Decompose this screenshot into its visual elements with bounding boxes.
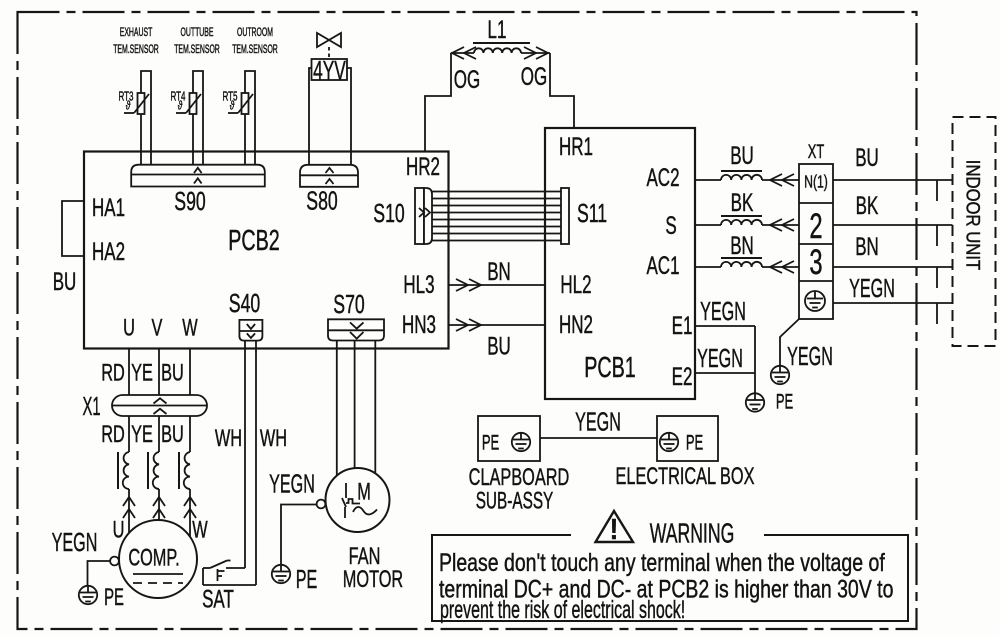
svg-text:PE: PE [482,430,499,454]
wire fan to PE [281,505,317,566]
svg-text:YE: YE [131,421,153,448]
svg-text:OG: OG [521,63,547,91]
svg-text:HA1: HA1 [92,194,125,222]
svg-text:M: M [357,479,371,506]
wire XT 2 to indoor BK [833,224,953,226]
svg-text:PE: PE [776,389,793,413]
svg-text:WH: WH [215,425,242,452]
terminal stub BK [936,225,938,246]
svg-text:YEGN: YEGN [52,527,98,557]
wire L1 left to PCB2 [425,53,451,152]
svg-text:CLAPBOARD: CLAPBOARD [469,464,570,491]
wire fan 1 [336,341,338,476]
ground PE (fan) [272,565,290,583]
svg-text:S10: S10 [373,198,404,227]
connector S70 [328,319,384,340]
svg-text:L1: L1 [488,16,507,44]
ground PE (XT) [771,366,789,384]
ground PE (comp) [79,586,97,604]
clapboard sub-assy box [478,416,540,461]
svg-text:PCB2: PCB2 [228,225,279,257]
wire AC1 to XT 3 with choke [695,258,799,273]
svg-text:HN2: HN2 [559,311,593,339]
svg-text:HL2: HL2 [560,271,591,299]
svg-text:OG: OG [454,66,480,94]
terminal stub BU [936,180,938,201]
svg-text:3: 3 [809,244,822,283]
ground PE (E1 E2) [746,393,764,411]
ground symbol (clapboard) [512,433,530,451]
svg-text:E2: E2 [672,363,693,391]
svg-text:YEGN: YEGN [700,296,746,326]
svg-text:Please don't touch any termina: Please don't touch any terminal when the… [439,549,885,577]
warning triangle [596,511,634,545]
thermistor RT5 [222,90,253,114]
connector X1 [112,395,207,416]
wire L1 right to PCB1 [550,53,574,128]
svg-text:ELECTRICAL BOX: ELECTRICAL BOX [615,463,754,490]
svg-text:BU: BU [855,144,879,172]
svg-text:U: U [123,315,135,342]
svg-text:HR2: HR2 [406,153,440,181]
node (fan PE tap) [317,500,326,509]
svg-text:S90: S90 [174,186,205,215]
wire S40 left (WH) [244,341,246,568]
connector S10 [415,188,432,244]
svg-text:TEM.SENSOR: TEM.SENSOR [174,43,220,56]
label OUTTUBE TEM.SENSOR [174,26,220,56]
svg-text:BU: BU [730,142,754,170]
svg-text:PE: PE [104,585,124,611]
wire XT ground to PE [780,319,799,366]
svg-text:OUTROOM: OUTROOM [237,26,273,39]
wire U to X1 [128,349,130,396]
svg-text:WH: WH [260,425,287,452]
svg-text:AC2: AC2 [646,164,679,192]
svg-text:YEGN: YEGN [787,341,833,371]
svg-text:N(1): N(1) [804,172,828,192]
INDOOR UNIT dashed box [953,117,996,346]
ribbon cable S10-S11 [432,192,561,241]
svg-text:YEGN: YEGN [697,343,743,373]
wire E1 [695,325,755,327]
svg-text:S80: S80 [306,186,337,215]
svg-text:!: ! [610,513,619,546]
svg-text:E1: E1 [672,312,693,340]
wire W to X1 [189,349,191,396]
svg-text:YE: YE [131,360,153,387]
svg-text:HN3: HN3 [402,311,436,339]
wire HA1-HA2 jumper bracket [62,201,84,256]
valve 4YV bowtie [317,33,341,58]
wire S40 right (WH) [255,341,257,585]
terminal stub YEGN [936,303,938,324]
fan motor circle [326,468,390,532]
label CLAPBOARD SUB-ASSY [469,464,570,515]
wire E junction down [754,326,756,394]
4YV coil box [312,59,348,80]
svg-text:HL3: HL3 [403,271,434,299]
svg-text:YEGN: YEGN [849,273,895,303]
label FAN MOTOR [343,543,403,593]
svg-text:4YV: 4YV [313,55,346,86]
wire sensor 3 loop [245,71,255,165]
svg-text:V: V [152,315,163,342]
svg-text:TEM.SENSOR: TEM.SENSOR [232,43,278,56]
inductor L1 [451,43,550,59]
svg-text:XT: XT [808,141,825,162]
wire HL3-HL2 [449,279,546,291]
warning box [432,535,908,621]
svg-text:HA2: HA2 [92,238,125,266]
wire XT N(1) to indoor BU [833,179,953,181]
svg-text:W: W [182,315,198,342]
svg-text:HR1: HR1 [559,133,593,161]
svg-text:MOTOR: MOTOR [343,566,403,593]
wire clapboard to electrical box [540,437,657,439]
svg-text:ϑ: ϑ [230,100,235,113]
wire E2 [695,372,755,374]
svg-text:WARNING: WARNING [650,517,735,548]
wire S to XT 2 with choke [695,216,799,231]
svg-text:S70: S70 [333,289,364,318]
wire XT 3 to indoor BN [833,266,953,268]
compressor COMP [119,520,197,598]
svg-text:2: 2 [809,208,822,247]
svg-text:BN: BN [487,258,511,286]
wire sensor 2 loop [193,71,203,165]
ground symbol (electrical box) [660,433,678,451]
label OUTROOM TEM.SENSOR [232,26,278,56]
wire comp to PE [88,561,111,586]
wire fan 2 [354,341,356,469]
svg-text:AC1: AC1 [646,252,679,280]
svg-text:INDOOR UNIT: INDOOR UNIT [962,160,983,270]
terminal block XT [799,164,833,319]
node (comp PE tap) [110,557,119,566]
svg-text:PE: PE [296,564,318,594]
connector S40 [239,320,262,341]
svg-text:S: S [665,212,676,240]
svg-text:BK: BK [731,189,754,217]
PCB2 box [84,152,449,349]
svg-text:BU: BU [161,360,184,387]
svg-text:ϑ: ϑ [178,100,183,113]
svg-text:BU: BU [161,421,184,448]
wire V to X1 [158,349,160,396]
thermal switch SAT [203,561,256,586]
wire sensor 1 loop [141,71,151,165]
svg-text:S11: S11 [577,198,607,227]
svg-text:BK: BK [856,192,879,220]
svg-text:SUB-ASSY: SUB-ASSY [476,488,554,514]
svg-text:RD: RD [101,421,125,448]
wire XT ground to indoor YEGN [833,302,953,304]
label EXHAUST TEM.SENSOR [113,26,159,56]
svg-text:U: U [113,517,125,544]
terminal ground symbol [805,291,825,311]
svg-text:TEM.SENSOR: TEM.SENSOR [113,43,159,56]
wire fan 3 [374,341,376,474]
terminal stub BN [936,267,938,288]
svg-text:W: W [192,517,208,544]
svg-text:prevent the risk of electrical: prevent the risk of electrical shock! [440,597,685,624]
svg-text:BN: BN [855,233,879,261]
wire U coil to compressor [118,416,135,533]
svg-text:YEGN: YEGN [575,406,621,436]
electrical box [657,416,718,461]
svg-text:BU: BU [53,268,77,296]
svg-text:RD: RD [101,360,125,387]
label V (comp) [150,523,164,542]
connector S90 [131,165,265,187]
thermistor RT3 [118,90,149,114]
svg-text:COMP.: COMP. [128,545,179,572]
wire 4YV left [309,68,312,165]
svg-text:YEGN: YEGN [269,468,315,498]
svg-text:X1: X1 [82,393,100,421]
wire V coil to compressor [148,416,165,521]
PCB1 box [545,128,695,399]
svg-text:PE: PE [686,430,703,454]
thermistor RT4 [170,90,201,114]
svg-text:PCB1: PCB1 [584,352,635,384]
svg-text:SAT: SAT [202,585,234,613]
svg-text:BN: BN [730,232,754,260]
wire AC2 to XT N(1) with choke [695,171,799,186]
wire 4YV right [347,68,351,165]
wire W coil to compressor [179,416,196,537]
svg-text:S40: S40 [229,288,260,317]
svg-text:ϑ: ϑ [126,100,131,113]
svg-text:EXHAUST: EXHAUST [120,26,153,39]
svg-text:BU: BU [487,332,511,360]
connector S11 [561,188,569,244]
svg-text:OUTTUBE: OUTTUBE [181,26,214,39]
wire HN3-HN2 [449,319,546,331]
connector S80 [300,165,358,187]
